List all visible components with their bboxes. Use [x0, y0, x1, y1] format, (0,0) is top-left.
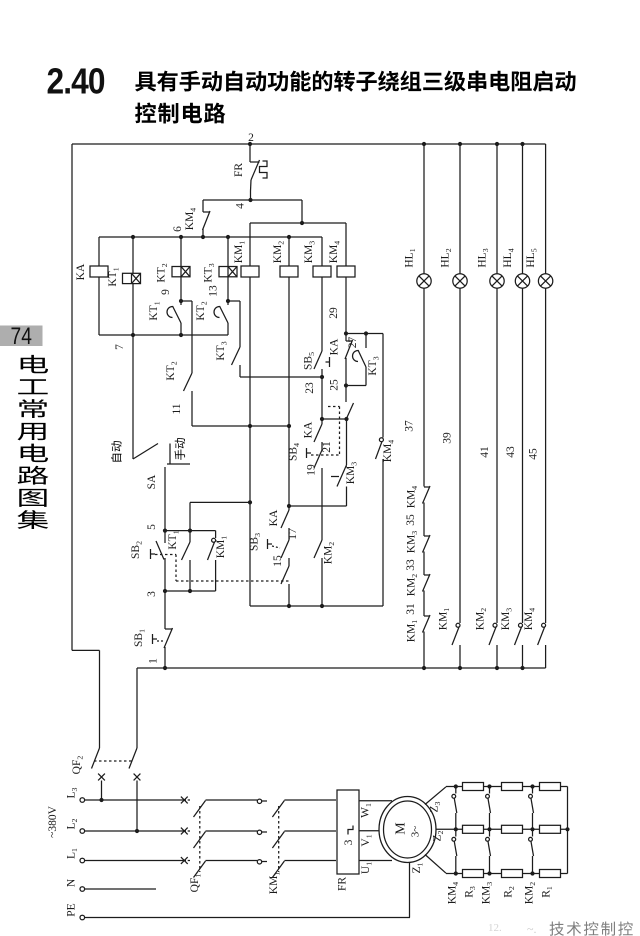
junction bus1 HL3: [495, 666, 499, 670]
svg-text:12.: 12.: [488, 922, 502, 934]
contact KM4 NC chain: [424, 486, 430, 488]
terminal X L2: [181, 828, 188, 835]
contact KM1 NO lamp: [456, 623, 460, 627]
svg-text:43: 43: [505, 446, 517, 458]
wire 419: [322, 418, 347, 420]
contact KM4 NO: [379, 438, 383, 442]
wire KT3 drop: [227, 237, 229, 267]
contact KM2 NO: [314, 540, 322, 558]
wire FR to node 4: [250, 191, 252, 200]
junction node 1: [163, 666, 167, 670]
junction KM4 row2: [454, 827, 458, 831]
wire node13 branch: [228, 300, 240, 302]
wire HL4 column: [522, 288, 524, 623]
junction bus7 KT1col: [131, 333, 135, 337]
wire rotor Z2: [436, 828, 568, 830]
pushbutton SB1 NC: [165, 628, 173, 630]
svg-text:5: 5: [146, 524, 158, 530]
wire node4 to feed: [301, 200, 303, 223]
wire KA coil to bus7: [98, 277, 100, 335]
plunger SB4: [306, 448, 308, 458]
wire U1: [359, 860, 392, 862]
junction KM1col wire426: [248, 424, 252, 428]
contact KM2 short a: [532, 787, 534, 794]
lamp HL5: [538, 274, 552, 288]
svg-text:19: 19: [306, 464, 318, 476]
terminal QF1 out1: [257, 799, 261, 803]
link QF1 dashed: [199, 806, 201, 872]
wire W1: [359, 800, 392, 802]
junction bus7 KT1contact: [179, 333, 183, 337]
svg-text:SA: SA: [146, 474, 158, 489]
watermark: [488, 921, 633, 936]
svg-text:39: 39: [442, 432, 454, 444]
resistor R1 row3: [540, 870, 561, 878]
thermal overload contact FR: [250, 161, 260, 163]
svg-text:~.: ~.: [527, 922, 537, 936]
contactor coil KM1: [241, 266, 259, 277]
junction top bus HL1: [422, 142, 426, 146]
wire bus 7: [99, 334, 228, 336]
plunger SB3: [267, 539, 269, 549]
junction node 23: [320, 375, 324, 379]
contact KM4 NC: [202, 200, 204, 212]
junction bus6 KT3: [226, 235, 230, 239]
junction KM2 row1: [530, 784, 534, 788]
svg-text:35: 35: [405, 514, 417, 526]
pushbutton SB2 NC: [156, 541, 164, 560]
contactor coil KM2: [280, 266, 298, 277]
svg-text:45: 45: [528, 448, 540, 460]
wire KM4 coil top: [345, 223, 347, 266]
wire control to QF2 pole1: [72, 649, 100, 651]
plunger SB2: [150, 549, 152, 559]
wire KM4NO drop: [382, 334, 384, 438]
junction bus1 HL1: [422, 666, 426, 670]
pushbutton SB4: [314, 450, 322, 468]
relay coil KA: [90, 266, 108, 277]
selector switch SA: [133, 444, 158, 460]
contact KM2 short b: [532, 829, 534, 836]
svg-text:21: 21: [321, 441, 333, 453]
wire KA drop: [98, 237, 100, 266]
wire KM1 coil top: [249, 223, 251, 266]
lamp HL3: [490, 274, 504, 288]
link SB2 dashed: [155, 554, 176, 556]
junction parallel KT3: [364, 331, 368, 335]
junction KM2 row2: [530, 827, 534, 831]
delay contact KT1: [180, 301, 182, 305]
svg-text:1: 1: [148, 658, 160, 664]
link SB4 dashed: [311, 454, 340, 456]
svg-text:KA: KA: [303, 421, 315, 438]
junction return KM2chain: [287, 604, 291, 608]
svg-text:KA: KA: [329, 338, 341, 355]
svg-text:2.40: 2.40: [47, 62, 105, 102]
terminal PE: [80, 915, 85, 920]
wire HL4 column top: [522, 144, 524, 274]
wire node 4: [203, 199, 302, 201]
breaker QF1 pole1: [188, 799, 190, 801]
svg-text:KA: KA: [75, 263, 87, 280]
terminal L1: [80, 858, 85, 863]
junction KM4 row3: [454, 871, 458, 875]
svg-text:FR: FR: [337, 877, 349, 891]
wire KT2 drop: [180, 237, 182, 267]
lamp HL2: [453, 274, 467, 288]
pushbutton SB3: [281, 540, 289, 558]
junction L2 QF2: [135, 829, 139, 833]
svg-text:74: 74: [11, 322, 32, 350]
resistor R2 row3: [502, 870, 523, 878]
svg-text:M: M: [394, 822, 409, 835]
wire bottom bus node1: [137, 667, 546, 669]
wire node 5: [165, 530, 216, 532]
contact KT3 NO: [232, 347, 241, 365]
svg-text:PE: PE: [66, 903, 78, 916]
svg-text:3: 3: [343, 839, 355, 845]
delay contact KT3: [365, 334, 367, 349]
svg-text:17: 17: [287, 528, 299, 540]
wire top bus node 2: [72, 143, 546, 145]
page title line2: [135, 103, 156, 124]
junction node 29: [344, 331, 348, 335]
contact KT2 NO: [184, 373, 193, 391]
junction node 25: [344, 383, 348, 387]
contact KM4 NO lamp: [542, 623, 546, 627]
resistor R3 row3: [463, 870, 484, 878]
contactor KM1 main pole2: [262, 831, 267, 833]
link SB5 dashed: [328, 406, 340, 408]
svg-text:29: 29: [328, 307, 340, 319]
link QF2 dashed: [94, 760, 132, 762]
junction wire5 KT1: [188, 529, 192, 533]
contact KM4 short a: [455, 787, 457, 794]
svg-text:6: 6: [172, 226, 184, 232]
wire HL1 column: [423, 288, 425, 486]
wire KM2 coil top: [288, 237, 290, 266]
junction bus1 HL4: [520, 666, 524, 670]
junction L3 QF2: [99, 798, 103, 802]
junction wire419 left: [320, 417, 324, 421]
terminal QF1 out3: [257, 860, 261, 864]
junction KM3 row3: [487, 871, 491, 875]
wire rotor right bus: [567, 787, 569, 874]
junction top bus HL4: [520, 142, 524, 146]
wire KT1coil to SA: [132, 284, 134, 335]
svg-text:25: 25: [329, 379, 341, 391]
page title line1: [135, 72, 156, 92]
wire SA common: [164, 467, 166, 531]
contact KM2 NC chain: [424, 574, 430, 576]
wire KM4 coil column: [345, 277, 347, 334]
svg-text:7: 7: [114, 344, 126, 350]
junction rotor bus: [565, 827, 569, 831]
terminal L3: [80, 798, 85, 803]
wire KT3 coil to node13: [227, 277, 229, 301]
svg-text:41: 41: [479, 446, 491, 458]
svg-text:9: 9: [160, 289, 172, 295]
wire bus 6: [99, 236, 322, 238]
resistor R1 row1: [540, 783, 561, 791]
junction node6 KM4: [201, 235, 205, 239]
svg-text:11: 11: [171, 403, 183, 414]
terminal X QF2 pole1: [98, 774, 105, 781]
breaker QF2 pole1: [92, 748, 100, 769]
svg-text:37: 37: [404, 420, 416, 432]
wire node 3: [165, 590, 216, 592]
junction node 5: [163, 529, 167, 533]
contact KA NO rung2: [281, 510, 289, 528]
contact KA NC: [345, 334, 347, 342]
svg-text:13: 13: [208, 285, 220, 297]
terminal QF1 out2: [257, 830, 261, 834]
wire KT2 coil to node9: [180, 277, 182, 301]
contact KM3 NC chain: [424, 535, 430, 537]
contact below 25: [345, 386, 347, 403]
wire node23 down: [321, 377, 323, 424]
wire PE to motor: [409, 862, 411, 918]
junction KM3 row1: [487, 784, 491, 788]
junction bus1 HL2: [458, 666, 462, 670]
wire self-hold top: [190, 501, 250, 503]
wire node9 drop: [191, 301, 193, 373]
junction node 4: [248, 198, 252, 202]
contact KM3 short a: [489, 787, 491, 794]
junction KM2 row3: [530, 871, 534, 875]
resistor R3 row2: [463, 825, 484, 833]
svg-text:FR: FR: [233, 163, 245, 177]
sidebar page box: [0, 326, 43, 347]
breaker QF1 pole2: [188, 830, 190, 832]
delay contact KT2: [227, 301, 229, 305]
terminal X QF2 pole2: [134, 774, 141, 781]
junction wire3 KT1: [188, 589, 192, 593]
junction top bus FR: [248, 142, 252, 146]
wire KT1 drop: [132, 237, 134, 273]
svg-text:4: 4: [235, 203, 247, 209]
wire HL5 column top: [545, 144, 547, 274]
wire KT1 aux drop: [189, 502, 191, 542]
svg-text:27: 27: [347, 337, 359, 349]
svg-text:33: 33: [405, 559, 417, 571]
terminal L2: [80, 829, 85, 834]
contactor KM1 main pole3: [262, 861, 267, 863]
contact SB2 NO linked: [281, 566, 289, 584]
selector manual terminal: [169, 444, 171, 465]
junction node 9: [179, 299, 183, 303]
motor M inner: [384, 801, 432, 858]
wire HL3 column: [496, 288, 498, 623]
contactor coil KM3: [313, 266, 331, 277]
wire KM3 coil top: [321, 237, 323, 266]
pushbutton SB5: [314, 351, 322, 369]
resistor R2 row2: [502, 825, 523, 833]
plunger SB5: [329, 357, 331, 367]
wire KM1 coil column: [249, 277, 251, 606]
wire V1: [359, 830, 380, 832]
wire bus1 to QF2 pole2: [136, 668, 138, 748]
wire KM3 coil column: [321, 277, 323, 351]
wire node13 drop: [239, 301, 241, 347]
junction bus6 KT2: [179, 235, 183, 239]
wire return 606: [250, 605, 383, 607]
svg-text:N: N: [66, 878, 78, 887]
contact KM1 NO aux: [212, 538, 216, 542]
wire feed KM1 KM4 coils: [250, 222, 346, 224]
wire parallel top: [346, 333, 383, 335]
svg-text:15: 15: [272, 555, 284, 567]
junction KM3 row2: [487, 827, 491, 831]
wire node9 branch: [181, 300, 192, 302]
junction wire419 right: [344, 417, 348, 421]
timer coil KT3: [219, 267, 237, 277]
junction return KM2NO: [320, 604, 324, 608]
contact KT1 NO aux: [182, 542, 191, 560]
junction wire426 KM2col: [287, 424, 291, 428]
breaker QF1 pole3: [188, 860, 190, 862]
terminal X L3: [181, 797, 188, 804]
contact KM3 NC: [346, 419, 348, 465]
lamp HL4: [515, 274, 529, 288]
junction top bus HL2: [458, 142, 462, 146]
lamp HL1: [417, 274, 431, 288]
svg-text:23: 23: [304, 382, 316, 394]
junction bus6 KT1: [131, 235, 135, 239]
contact KM4 short b: [455, 829, 457, 836]
wire HL2 column top: [459, 144, 461, 274]
wire QF2 pole2 to L2: [136, 781, 138, 832]
wire link 506: [289, 505, 347, 507]
junction node 506: [287, 504, 291, 508]
wire KM2 coil column: [288, 277, 290, 510]
thermal relay FR box: [337, 790, 359, 874]
wire HL2 column: [459, 288, 461, 623]
junction node 3: [163, 589, 167, 593]
label SA auto: [111, 441, 122, 461]
wire KM1 aux drop: [215, 531, 217, 538]
wire parallel bottom: [346, 385, 366, 387]
terminal X L1: [181, 857, 188, 864]
junction bus6 KM2: [287, 235, 291, 239]
wire QF2 pole1 to L3: [101, 781, 103, 801]
wire HL5 column: [545, 288, 547, 623]
svg-text:31: 31: [405, 603, 417, 615]
timer coil KT1: [123, 273, 141, 283]
wire FR drop: [249, 144, 251, 162]
contact KA NO rung3: [314, 424, 322, 442]
label SA manual: [175, 438, 186, 460]
resistor R2 row1: [502, 783, 523, 791]
plunger SB1: [152, 634, 154, 644]
contact KM3 NO lamp: [519, 623, 523, 627]
svg-text:3: 3: [146, 591, 158, 597]
junction node 13: [226, 299, 230, 303]
wire node 23 link: [240, 376, 322, 378]
contact KM2 NO lamp: [493, 623, 497, 627]
contactor coil KM4: [337, 266, 355, 277]
wire rotor Z3: [425, 787, 446, 805]
breaker QF2 pole2: [129, 748, 137, 769]
svg-text:KA: KA: [268, 509, 280, 526]
junction top bus HL3: [495, 142, 499, 146]
timer coil KT2: [172, 267, 190, 277]
resistor R1 row2: [540, 825, 561, 833]
motor M outer: [379, 797, 436, 863]
link KM1 main dashed: [278, 806, 280, 872]
junction feed: [300, 221, 304, 225]
contact KM3 short b: [489, 829, 491, 836]
wire left border: [71, 144, 73, 650]
wire node 11 link: [192, 425, 289, 427]
svg-text:3~: 3~: [410, 826, 422, 838]
contactor KM1 main pole1: [262, 800, 267, 802]
sidebar vertical book title: [21, 355, 48, 373]
resistor R3 row1: [463, 783, 484, 791]
terminal N: [80, 887, 85, 892]
contact KM1 NC chain: [424, 615, 430, 617]
wire HL1 column top: [423, 144, 425, 274]
wire rail to SB2: [164, 531, 166, 543]
heater symbol: [348, 826, 353, 835]
wire rotor Z1: [425, 855, 446, 874]
svg-text:~380V: ~380V: [47, 805, 59, 837]
wire rail to SB1: [164, 591, 166, 629]
junction self-hold KM1col: [248, 500, 252, 504]
wire HL3 column top: [496, 144, 498, 274]
junction KM4 row1: [454, 784, 458, 788]
